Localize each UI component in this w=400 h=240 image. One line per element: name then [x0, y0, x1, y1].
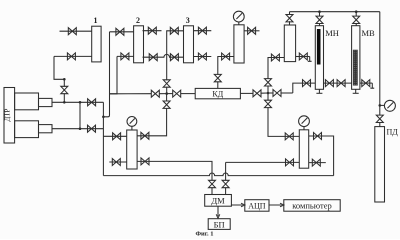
valve V24 (buffer column bottom left)	[271, 54, 279, 61]
svg-text:ДТР: ДТР	[4, 108, 12, 121]
wire regulator 1 gauge stem	[131, 126, 133, 130]
detector DTR body	[4, 88, 15, 144]
wire valve to PD column	[379, 122, 381, 126]
MV base cap	[353, 92, 359, 94]
valve V30 (column 3 lower left)	[170, 54, 178, 61]
wire regulator 2 lower right stub	[309, 162, 326, 164]
valve V27 (buffer column right)	[299, 53, 307, 60]
valve V41 (DM left riser)	[209, 180, 216, 187]
node cross junction A	[165, 92, 168, 95]
wire KD to valve V13	[241, 92, 253, 94]
svg-text:3: 3	[186, 16, 190, 25]
wire column 3 lower right stub	[194, 56, 212, 58]
wire manifold to regulator 1	[103, 135, 126, 137]
valve V19 (PD inlet)	[376, 115, 383, 122]
wire detector lower line	[52, 128, 103, 130]
node inter-cell junction top	[79, 101, 82, 104]
wire column 2 lower-left drop	[110, 56, 117, 93]
flow regulator 1 body	[127, 130, 137, 169]
wire reactor gauge stem	[238, 22, 240, 25]
wire V15 up and right to buffer column	[268, 58, 284, 79]
wire regulator 1 lower left stub	[109, 161, 126, 163]
wire reactor right stub	[244, 30, 259, 32]
svg-text:компьютер: компьютер	[292, 201, 332, 211]
wire V41 to DM	[211, 188, 213, 195]
valve V29 (column 2 lower right)	[149, 54, 157, 61]
pressure gauge on PD line	[384, 100, 395, 111]
valve V1 (column 1 upper)	[68, 28, 76, 35]
reactor KD box	[195, 88, 240, 98]
valve V3 (detector cell 1 branch)	[61, 86, 68, 93]
wire V25 down to regulator 2	[268, 107, 299, 136]
chromatographic column 1	[92, 26, 101, 62]
flowmeter DM box	[205, 195, 232, 207]
valve V4 (column 2 upper left)	[116, 28, 124, 35]
wire buffer column right stub	[296, 56, 310, 58]
wire valve to MV top	[355, 23, 357, 26]
svg-text:КД: КД	[212, 90, 223, 99]
valve V28 (regulator 1 upper right)	[141, 132, 149, 139]
pressure vessel PD	[375, 127, 385, 202]
valve V16 (buffer column top)	[286, 15, 293, 22]
valve V37 (regulator 1 outlet)	[141, 158, 149, 165]
wire Vd down to regulator 1 upper right	[137, 108, 167, 136]
wire V3 to detector line	[63, 93, 65, 102]
chromatographic column 3	[184, 26, 194, 63]
valve V23 (MV bottom right)	[362, 80, 370, 87]
wire rail drop to buffer column	[289, 12, 291, 15]
valve V35 (regulator 1 upper left)	[113, 133, 121, 140]
power supply BP box	[208, 219, 230, 230]
MN bottom stem	[318, 89, 320, 93]
valve V40 (regulator 2 lower right)	[312, 159, 320, 166]
wire column 2 upper right stub	[143, 30, 162, 32]
DTR cell 2 small section	[39, 125, 53, 133]
node manifold junction	[102, 116, 105, 119]
svg-text:МВ: МВ	[362, 28, 376, 38]
valve V13 (KD right)	[253, 90, 261, 97]
plugged port after V23	[370, 83, 374, 88]
wire V42 to DM	[225, 188, 227, 195]
wire column1 lower elbow down	[54, 56, 64, 79]
wire regulator 1 outlet	[137, 161, 212, 180]
DTR cell 1 small section	[39, 98, 53, 106]
arrow DM to BP	[216, 206, 220, 218]
wire detector upper line	[52, 101, 103, 103]
MV packed fill (stippled bar)	[353, 50, 357, 85]
valve V33 (detector upper line)	[88, 99, 96, 106]
MV bottom stem	[355, 89, 357, 93]
valve V15 (junction B up)	[265, 79, 272, 86]
node inter-cell junction bottom	[79, 127, 82, 130]
valve V36 (regulator 1 lower left)	[112, 159, 120, 166]
wire regulator 2 inlet line	[226, 162, 300, 180]
valve V38 (regulator 2 upper right)	[314, 133, 322, 140]
node cross junction B	[267, 92, 270, 95]
svg-text:ПД: ПД	[387, 128, 399, 137]
valve Vd (junction A down)	[163, 101, 170, 108]
valve V9 (junction A left)	[151, 90, 159, 97]
wire valve to MN top	[319, 23, 321, 26]
wire V13 to junction B	[261, 92, 268, 94]
manometer column MN body	[315, 26, 323, 90]
DTR cell 2 big section	[15, 121, 39, 138]
wire KD top stem	[217, 82, 219, 89]
MN base cap	[316, 92, 322, 94]
wire rail drop to MN valve	[319, 12, 321, 17]
wire cross2 riser to MN bottom	[293, 83, 316, 93]
valve V26 (regulator 2 upper left)	[285, 133, 293, 140]
arrow DM to ACP	[231, 203, 244, 207]
ADC box ACP	[245, 200, 269, 212]
wire long bypass line with hops	[103, 173, 333, 176]
flow regulator 2 body	[299, 130, 308, 168]
valve V20 (MN bottom left)	[303, 80, 311, 87]
svg-text:ДМ: ДМ	[211, 196, 225, 206]
valve V7 (column 3 upper left)	[170, 27, 178, 34]
pressure gauge on regulator 1	[127, 117, 137, 127]
svg-text:2: 2	[136, 16, 140, 25]
valve V12 (above KD)	[214, 74, 221, 81]
wire junction to PD valve	[379, 105, 381, 115]
wire column 2 lower right line with hop	[143, 54, 184, 57]
wire MN to MV bottom	[324, 82, 352, 84]
reactor vessel (top middle)	[234, 25, 244, 63]
valve V22 (MN-MV right)	[337, 80, 345, 87]
wire top rail	[290, 11, 380, 13]
svg-text:Фиг. 1: Фиг. 1	[195, 231, 213, 238]
valve V11 (reactor bottom left)	[222, 53, 230, 60]
wire column 2 lower feed	[117, 55, 134, 57]
arrow ACP to computer	[269, 203, 284, 207]
valve V32 (column 3 lower right)	[198, 53, 206, 60]
wire V8 up to column 3 feed elbow	[167, 31, 184, 80]
wire V12 up to reactor bottom-left elbow	[218, 57, 234, 75]
valve V6 (column 2 upper right)	[148, 27, 156, 34]
valve V2 (column 1 lower)	[67, 53, 75, 60]
valve V17 (MN top)	[316, 16, 323, 23]
valve V31 (column 3 upper right)	[198, 27, 206, 34]
wire V14 to MN riser	[281, 92, 293, 94]
wire junction A to valve V10	[167, 93, 173, 95]
wire rail drop to MV valve	[355, 12, 357, 17]
wire regulator 2 gauge stem	[303, 126, 305, 129]
wire column 3 upper right stub	[194, 30, 212, 32]
node detector line junction	[63, 101, 66, 104]
valve V10 (junction A right)	[173, 90, 181, 97]
node PD gauge junction	[379, 104, 382, 107]
node rail-MV junction	[355, 10, 358, 13]
valve V18 (MV top)	[353, 16, 360, 23]
wire V9 to junction A	[159, 93, 166, 95]
wire junction B up	[267, 86, 269, 93]
wire down to valve V3	[63, 79, 65, 86]
valve V14 (junction B right)	[273, 90, 281, 97]
pressure gauge on reactor	[233, 11, 244, 22]
chromatographic column 2	[134, 26, 144, 63]
MN mercury fill (black bar)	[317, 29, 321, 65]
wire junction A down	[166, 94, 168, 102]
plugged port after V27	[308, 57, 312, 62]
node rail-MN junction	[318, 10, 321, 13]
buffer column (unlabeled)	[284, 25, 295, 62]
wire junction B to valve V14	[268, 92, 273, 94]
wire PD gauge stub	[380, 104, 385, 106]
wire column 2 upper feed	[110, 31, 134, 33]
pressure gauge on regulator 2	[299, 116, 310, 127]
wire column 1 lower inlet	[54, 55, 92, 57]
wire manifold to valve V9	[110, 93, 152, 95]
valve V21 (MN-MV left)	[325, 80, 333, 87]
wire inter-cell link	[79, 102, 81, 128]
valve V43 (reactor right)	[248, 27, 256, 34]
wire manifold vertical	[102, 102, 104, 175]
valve V25 (junction B down)	[265, 100, 272, 107]
svg-text:АЦП: АЦП	[248, 202, 266, 211]
svg-text:1: 1	[94, 16, 98, 25]
wire V10 to KD	[181, 93, 195, 95]
wire column2 feed riser (A)	[103, 32, 109, 117]
wire junction A up	[166, 87, 168, 94]
valve V39 (regulator 2 lower left)	[286, 159, 294, 166]
wire valve to buffer column	[289, 21, 291, 25]
wire rail to PD branch	[379, 12, 381, 106]
svg-text:БП: БП	[214, 219, 225, 229]
DTR cell 1 big section	[15, 93, 39, 110]
wire column 1 upper inlet	[60, 30, 92, 32]
node detector branch top	[63, 78, 66, 81]
valve V34 (detector lower line)	[88, 125, 96, 132]
valve V8 (junction A up)	[163, 80, 170, 87]
wire regulator 2 upper right loop	[309, 136, 334, 176]
svg-text:МН: МН	[325, 28, 339, 38]
valve V42 (DM right riser)	[222, 180, 229, 187]
valve V5 (column 2 lower left)	[121, 53, 129, 60]
wire MV bottom right stub	[360, 82, 372, 84]
manometer column MV body	[352, 26, 360, 90]
wire junction B down	[267, 93, 269, 101]
computer box	[284, 200, 340, 212]
